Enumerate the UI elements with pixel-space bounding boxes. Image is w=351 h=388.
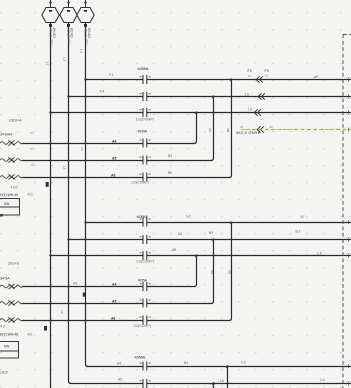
svg-text:B.1: B.1 (296, 230, 301, 234)
svg-text:1A15: 1A15 (0, 371, 8, 375)
svg-text:1/2(COMP): 1/2(COMP) (136, 117, 155, 121)
svg-text:F2: F2 (248, 69, 252, 73)
svg-text:BK4: BK4 (85, 40, 89, 46)
rotated cable labels below fuse F2 (66, 28, 74, 46)
svg-text:1.2: 1.2 (62, 57, 66, 62)
rotated cable labels below fuse F3 (83, 28, 91, 46)
overload heater E1 row A1 (0, 140, 22, 145)
wire bracket U2 (211, 240, 214, 304)
svg-text:a3: a3 (31, 163, 35, 167)
svg-text:16: 16 (265, 74, 269, 78)
junction on V2 row R2 (67, 95, 69, 97)
svg-text:A4: A4 (117, 361, 121, 365)
svg-text:34-BH4: 34-BH4 (0, 133, 12, 137)
svg-text:L2: L2 (62, 166, 66, 170)
svg-text:H(1) WH-40: H(1) WH-40 (0, 193, 18, 197)
contactor contact K09A-2 (140, 156, 151, 165)
wire bracket W1 (225, 367, 228, 388)
junction bracket U1 row M3 (195, 254, 197, 256)
svg-text:4 2: 4 2 (0, 325, 5, 329)
wire row C1 (87, 366, 351, 368)
contactor contact K05A-2 (140, 299, 151, 308)
junction bracket W1 row C1 (226, 365, 228, 367)
wire bracket U3 (229, 223, 232, 321)
svg-text:A5: A5 (118, 377, 122, 381)
wire V3 vertical from fuse F3 (86, 23, 89, 367)
connector pin labels F2 F3 (245, 69, 269, 112)
svg-text:B4: B4 (209, 231, 213, 235)
junction on V1 row R3 (49, 111, 51, 113)
svg-text:K09ML: K09ML (138, 66, 150, 71)
svg-text:A5: A5 (172, 248, 176, 252)
svg-text:A4: A4 (112, 283, 116, 287)
svg-text:A4: A4 (73, 282, 77, 286)
svg-text:B6: B6 (168, 171, 172, 175)
svg-text:L2: L2 (60, 311, 64, 315)
junction on V3 row R1 (84, 78, 86, 80)
green equipotential wire (241, 129, 351, 131)
overload heater E5 row B2 (0, 300, 22, 305)
junction bracket T2 row R2 (212, 95, 214, 97)
svg-text:H(1) WH-40: H(1) WH-40 (0, 333, 18, 337)
svg-text:F3: F3 (265, 69, 269, 73)
connector X4 on green wire (257, 126, 264, 132)
svg-text:B1: B1 (208, 129, 212, 133)
wire number labels rows top (73, 73, 325, 383)
wire row A1 (22, 143, 195, 145)
svg-text:A4: A4 (178, 232, 182, 236)
junction bracket T3 row R1 (230, 78, 232, 80)
svg-text:B1: B1 (210, 271, 214, 275)
svg-text:4G1,5: 4G1,5 (48, 28, 52, 37)
svg-text:1.6: 1.6 (245, 92, 250, 96)
wire row B3 (22, 320, 230, 322)
svg-text:A6: A6 (111, 173, 115, 177)
wire bracket U1 (194, 256, 197, 287)
junction bracket T1 row R3 (195, 111, 197, 113)
junction on V3 row M1 (84, 221, 86, 223)
junction on V1 row M3 (49, 254, 51, 256)
svg-text:1.6: 1.6 (320, 378, 325, 382)
svg-text:4x2,5 GNYE: 4x2,5 GNYE (236, 130, 261, 135)
svg-text:a2: a2 (30, 146, 34, 150)
svg-text:B2: B2 (227, 271, 231, 275)
svg-text:B4: B4 (184, 361, 188, 365)
fuse F2 (60, 0, 77, 27)
junction bracket U2 row M2 (212, 238, 214, 240)
left edge mark (0, 214, 3, 216)
svg-text:B2: B2 (226, 129, 230, 133)
svg-text:K06ML: K06ML (137, 214, 149, 219)
svg-text:a1: a1 (30, 131, 34, 135)
contactor contact K05A-1 (140, 282, 151, 291)
svg-text:1/2(COMP): 1/2(COMP) (133, 324, 151, 328)
svg-text:A4: A4 (112, 139, 116, 143)
junction bracket W2 row C2 (212, 382, 215, 385)
wire bracket T2 (211, 97, 214, 161)
wire row R1 (86, 79, 351, 81)
overload heater E3 row A3 (0, 174, 22, 179)
dashed location border (343, 35, 351, 388)
connector X1 on row R1 (256, 76, 263, 82)
contactor contact K05ML-1 (140, 362, 151, 371)
svg-text:(3D)+B: (3D)+B (8, 261, 20, 265)
wire row A3 (22, 177, 230, 179)
rotated wire labels on verticals (45, 49, 231, 314)
svg-text:4G1,5: 4G1,5 (66, 28, 70, 37)
contactor contact K05ML-2 (140, 379, 151, 388)
svg-text:A7: A7 (301, 215, 305, 219)
svg-text:1/2(COMP): 1/2(COMP) (131, 180, 149, 184)
contactor contact K09ML-3 (140, 108, 151, 117)
overload heater E4 row B1 (0, 284, 22, 289)
svg-text:BK4: BK4 (50, 40, 54, 46)
svg-text:F.1: F.1 (109, 73, 114, 77)
contactor contact K05A-3 (140, 316, 151, 325)
svg-text:25: 25 (240, 125, 244, 129)
svg-text:14: 14 (248, 74, 252, 78)
svg-text:BK4: BK4 (68, 40, 72, 46)
svg-text:1.2: 1.2 (186, 215, 191, 219)
wire row C2 (70, 383, 351, 385)
wire V1 vertical from fuse F1 (50, 23, 52, 388)
svg-text:A5: A5 (112, 156, 116, 160)
svg-text:2.6: 2.6 (241, 361, 246, 365)
svg-text:1.6: 1.6 (248, 107, 253, 111)
connector X3 on row R3 (254, 109, 260, 115)
svg-text:A6: A6 (111, 317, 115, 321)
svg-text:L1: L1 (80, 148, 84, 152)
svg-text:422: 422 (27, 332, 33, 336)
contactor contact K09A-1 (140, 139, 151, 148)
wire bracket T1 (194, 113, 197, 144)
svg-text:422: 422 (28, 193, 34, 197)
connector X2 on row R2 (258, 93, 265, 99)
svg-text:B4: B4 (168, 154, 172, 158)
wire row M2 (69, 239, 351, 241)
squiggle row labels A (30, 131, 35, 167)
contactor contact K09A-3 (140, 173, 151, 182)
svg-text:34-5A: 34-5A (0, 277, 10, 281)
wire row A2 (22, 160, 212, 162)
wire row B2 (22, 303, 212, 305)
contactor contact K06ML-2 (140, 235, 151, 244)
svg-text:MN: MN (4, 344, 10, 348)
rotated cable labels below fuse F1 (48, 28, 56, 46)
svg-text:A5: A5 (112, 300, 116, 304)
contactor contact K06ML-3 (140, 251, 151, 260)
wire row M1 (86, 222, 351, 224)
junction bracket U3 row M1 (230, 221, 232, 223)
contactor contact K09ML-2 (140, 92, 151, 101)
svg-text:4G: 4G (269, 125, 273, 129)
terminal box MN (upper) (0, 199, 20, 216)
svg-text:1.1: 1.1 (45, 62, 49, 67)
svg-text:1/3D2+A: 1/3D2+A (9, 119, 23, 123)
right edge ticks (348, 78, 350, 386)
overload heater E2 row A2 (0, 157, 22, 162)
wire bracket W2 (211, 384, 214, 388)
svg-text:1/2(COMP): 1/2(COMP) (136, 260, 154, 264)
wire row R2 (69, 96, 351, 98)
svg-text:1.6: 1.6 (317, 252, 322, 256)
overload heater E6 row B3 (0, 317, 22, 322)
contactor contact K06ML-1 (140, 218, 151, 227)
svg-text:1.6: 1.6 (220, 379, 225, 383)
wire tick V1 node (46, 182, 49, 187)
fuse F3 (77, 0, 94, 27)
svg-text:T-4: T-4 (100, 90, 105, 94)
wire row B1 (22, 286, 195, 288)
wire V2 vertical from fuse F2 (69, 23, 72, 384)
svg-text:1.3: 1.3 (79, 49, 83, 54)
svg-text:4G1,5: 4G1,5 (83, 28, 87, 37)
junction on V2 row M2 (67, 238, 69, 240)
fuse F1 (42, 0, 59, 27)
wire tick V1 node lower (44, 326, 47, 331)
terminal box MN (lower) (0, 342, 19, 359)
contactor contact K09ML-1 (140, 75, 151, 84)
svg-text:K05A: K05A (138, 277, 147, 282)
svg-text:4122: 4122 (11, 185, 19, 189)
wire row M3 (51, 255, 351, 257)
svg-text:K05ML: K05ML (135, 354, 147, 359)
wire row R3 (51, 112, 351, 114)
wire tick V3 mid (83, 293, 86, 297)
svg-text:K09A: K09A (138, 128, 147, 133)
svg-text:MN: MN (4, 202, 10, 206)
wire bracket T3 (229, 80, 232, 178)
